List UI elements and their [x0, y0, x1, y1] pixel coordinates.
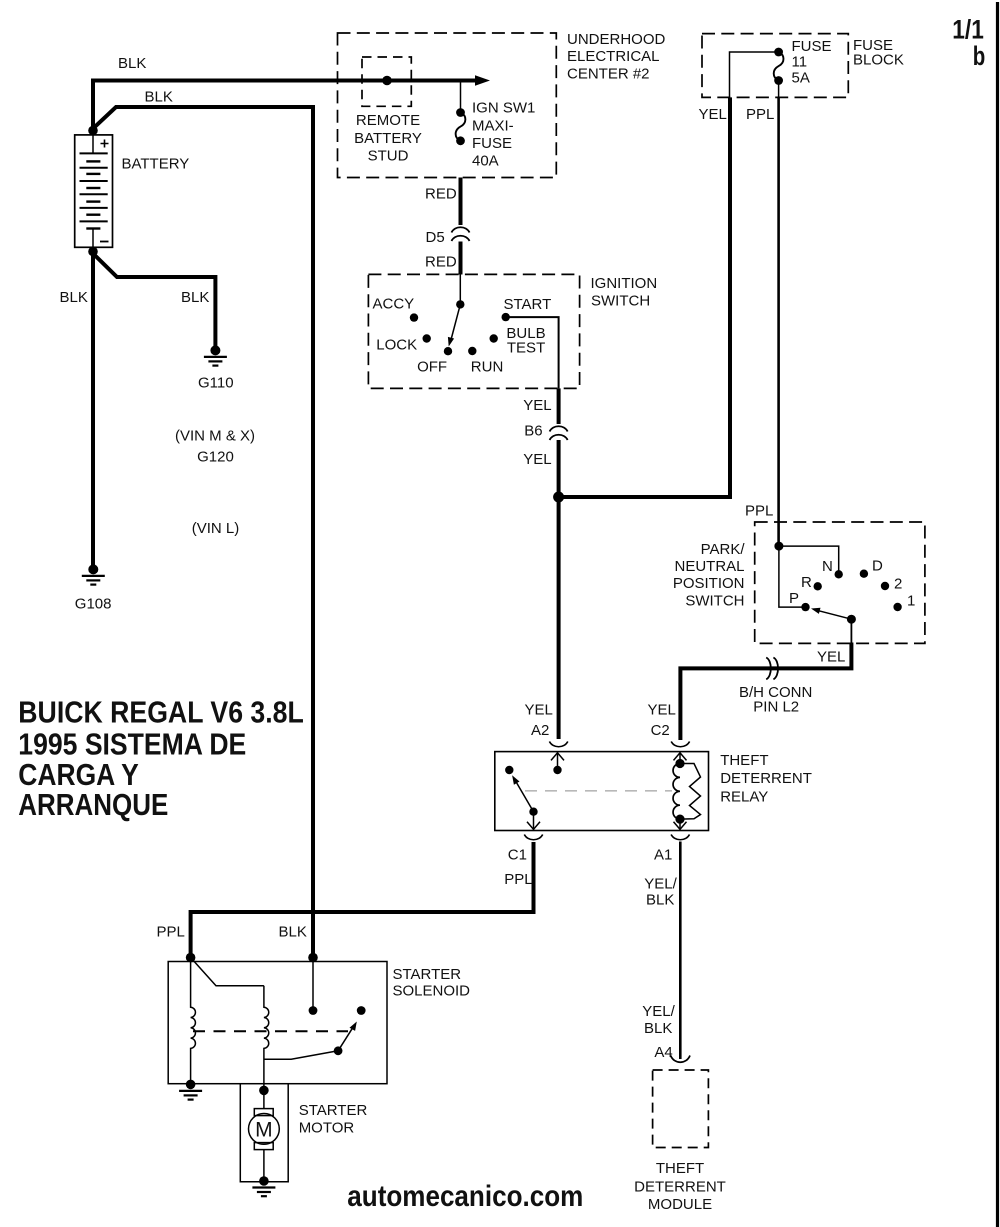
battery plates: [80, 135, 108, 247]
wire PPL fuse block to park/neutral switch: [777, 97, 780, 543]
svg-text:BLK: BLK: [279, 923, 307, 940]
wire START out: [506, 317, 559, 388]
wire PPL relay C1 to starter solenoid: [191, 842, 534, 954]
node battery positive: [88, 126, 98, 136]
remote battery stud box: [362, 57, 411, 106]
svg-text:40A: 40A: [472, 152, 499, 169]
node ppl entry: [774, 542, 783, 551]
svg-text:SWITCH: SWITCH: [591, 293, 650, 310]
svg-text:G120: G120: [197, 449, 234, 466]
underhood electrical center box: [338, 33, 557, 178]
svg-text:BLK: BLK: [646, 892, 674, 909]
UNDERHOOD-CENTER: [338, 31, 666, 178]
svg-text:YEL: YEL: [523, 397, 551, 414]
svg-text:(VIN M & X): (VIN M & X): [175, 428, 255, 445]
coil 1: [191, 958, 196, 1085]
svg-text:THEFT: THEFT: [656, 1160, 704, 1177]
wire RED maxifuse to D5: [459, 178, 463, 226]
node BLK entry: [308, 953, 318, 963]
svg-text:5A: 5A: [792, 69, 810, 86]
svg-text:BLK: BLK: [145, 89, 173, 106]
ground G108: [75, 564, 112, 612]
contact 1: [893, 603, 901, 611]
fuse 11 symbol: [774, 48, 783, 57]
svg-text:RELAY: RELAY: [720, 789, 768, 806]
svg-text:STUD: STUD: [368, 148, 409, 165]
wire to ground: [263, 1150, 265, 1181]
fuse block box: [702, 34, 848, 98]
battery minus sign: [100, 241, 109, 243]
contact D: [860, 570, 868, 578]
coil 2: [264, 986, 269, 1091]
connector arc C1: [524, 835, 542, 840]
internal dashed line: [525, 790, 672, 792]
wire stub to maxifuse: [460, 82, 462, 109]
wire to P contact: [779, 546, 802, 607]
wire YEL ignition start to B6: [557, 388, 561, 424]
contact BULB TEST: [490, 334, 498, 342]
relay box: [495, 752, 709, 831]
switch arm: [817, 610, 851, 619]
wire RED D5 to ignition switch: [459, 242, 463, 275]
A1 arrow down: [679, 819, 681, 829]
connector arc C2: [671, 742, 689, 747]
IGNITION-SWITCH: [368, 274, 657, 388]
svg-text:CENTER #2: CENTER #2: [567, 65, 650, 82]
wire to N contact: [779, 546, 839, 571]
THEFT-MODULE: [634, 1056, 726, 1213]
svg-text:ACCY: ACCY: [373, 295, 415, 312]
svg-text:G110: G110: [198, 375, 234, 392]
svg-text:DETERRENT: DETERRENT: [720, 770, 812, 787]
relay coil: [673, 764, 680, 820]
wire BLK battery- to G108: [91, 251, 95, 566]
svg-text:LOCK: LOCK: [376, 336, 417, 353]
svg-text:BLOCK: BLOCK: [853, 52, 904, 69]
svg-text:RED: RED: [425, 254, 457, 271]
arrowhead at remote stud wire end: [475, 75, 490, 85]
wire YEL/BLK relay A1 to theft deterrent module: [679, 842, 682, 1060]
svg-text:D: D: [872, 558, 883, 575]
WIRES-MEDIUM: [680, 97, 778, 1059]
ignition switch box: [368, 274, 579, 388]
connector B/H CONN PIN L2: [766, 658, 778, 680]
A2 arrow up: [557, 753, 559, 770]
node junction yel: [553, 492, 564, 503]
contact LOCK: [423, 334, 431, 342]
connector arc A1: [671, 835, 689, 840]
svg-text:BATTERY: BATTERY: [122, 156, 190, 173]
link pivot to motor node: [264, 1051, 338, 1060]
switch arm with arrow: [451, 304, 461, 340]
svg-text:MOTOR: MOTOR: [299, 1120, 355, 1137]
svg-text:M: M: [255, 1119, 273, 1142]
svg-text:YEL: YEL: [817, 649, 845, 666]
svg-text:A4: A4: [654, 1044, 672, 1061]
wire YEL B6 to junction to relay A2: [557, 440, 561, 739]
wire YEL junction to fuse block: [559, 97, 730, 497]
contact START: [502, 313, 510, 321]
svg-text:SWITCH: SWITCH: [685, 592, 744, 609]
svg-text:BATTERY: BATTERY: [354, 130, 422, 147]
ground motor: [259, 1176, 269, 1186]
wire into pivot: [459, 274, 461, 301]
node relay coil top: [675, 759, 684, 768]
svg-text:PPL: PPL: [157, 923, 185, 940]
svg-text:automecanico.com: automecanico.com: [347, 1180, 583, 1213]
svg-text:PARK/: PARK/: [701, 541, 746, 558]
switch arm with arrow: [516, 781, 534, 812]
svg-text:YEL: YEL: [523, 451, 551, 468]
svg-text:D5: D5: [426, 229, 445, 246]
svg-text:START: START: [504, 296, 552, 313]
PARK-NEUTRAL: [673, 503, 925, 644]
svg-text:YEL: YEL: [525, 702, 553, 719]
svg-text:N: N: [822, 558, 833, 575]
internal dashed line: [193, 1030, 348, 1032]
contact P: [801, 603, 809, 611]
svg-text:REMOTE: REMOTE: [356, 112, 420, 129]
svg-text:IGN SW1: IGN SW1: [472, 100, 535, 117]
contact 2: [881, 582, 889, 590]
svg-text:BUICK REGAL V6 3.8L: BUICK REGAL V6 3.8L: [18, 695, 304, 730]
motor circle M: [249, 1114, 280, 1145]
wire YEL park/neutral to relay C2: [680, 643, 851, 741]
THIN-LINKS: [461, 52, 779, 109]
STARTER-SOLENOID: [157, 923, 471, 1099]
svg-text:G108: G108: [75, 596, 112, 613]
wire BLK battery- diagonal to G110: [92, 253, 215, 348]
svg-text:YEL: YEL: [699, 106, 727, 123]
park/neutral box: [755, 522, 925, 643]
contact BLK: [309, 1006, 318, 1015]
svg-text:OFF: OFF: [417, 359, 447, 376]
svg-text:PPL: PPL: [504, 871, 532, 888]
svg-text:B6: B6: [524, 423, 542, 440]
svg-text:ARRANQUE: ARRANQUE: [18, 787, 168, 822]
switch arm with arrow: [338, 1027, 353, 1051]
svg-text:STARTER: STARTER: [299, 1102, 368, 1119]
battery box: [75, 135, 113, 247]
svg-text:PIN L2: PIN L2: [753, 699, 799, 716]
node relay coil bottom: [675, 815, 684, 824]
svg-text:C2: C2: [651, 722, 670, 739]
svg-text:A1: A1: [654, 847, 672, 864]
svg-text:POSITION: POSITION: [673, 575, 745, 592]
battery plus sign: [101, 140, 109, 148]
node motor connection: [259, 1086, 269, 1096]
svg-text:2: 2: [894, 575, 902, 592]
contact R: [814, 582, 822, 590]
contact ACCY: [410, 313, 418, 321]
svg-text:NEUTRAL: NEUTRAL: [674, 558, 744, 575]
svg-text:A2: A2: [531, 722, 549, 739]
contact OFF: [444, 347, 452, 355]
svg-text:C1: C1: [508, 847, 527, 864]
svg-text:MODULE: MODULE: [648, 1196, 712, 1213]
wire pivot down: [850, 619, 852, 643]
motor brush bottom: [254, 1143, 273, 1150]
connector arc A2: [549, 742, 567, 747]
TITLE: [18, 695, 304, 822]
relay resistor: [680, 764, 701, 820]
svg-text:(VIN L): (VIN L): [192, 520, 240, 537]
svg-text:THEFT: THEFT: [720, 752, 768, 769]
node pivot: [847, 615, 856, 624]
svg-text:PPL: PPL: [746, 106, 774, 123]
ground G110: [198, 345, 234, 391]
THEFT-RELAY: [495, 702, 812, 909]
maxifuse symbol: [456, 108, 465, 117]
BLK contact wire: [312, 958, 314, 1008]
svg-text:UNDERHOOD: UNDERHOOD: [567, 31, 666, 48]
node PPL entry: [186, 953, 196, 963]
C1 arrow down: [533, 812, 535, 830]
wire fuse block yel branch: [730, 52, 779, 97]
contact N: [835, 570, 843, 578]
svg-text:MAXI-: MAXI-: [472, 117, 514, 134]
svg-text:YEL/: YEL/: [644, 875, 677, 892]
svg-text:11: 11: [792, 54, 808, 71]
svg-text:STARTER: STARTER: [393, 966, 462, 983]
connector arc A4: [671, 1056, 690, 1063]
svg-text:BLK: BLK: [60, 289, 88, 306]
svg-text:P: P: [789, 590, 799, 607]
wire BLK battery+ to remote stud and arrow: [93, 81, 481, 133]
wire to motor: [263, 1090, 265, 1108]
module dashed box: [653, 1070, 709, 1148]
BATTERY: [75, 126, 190, 257]
motor enclosure: [240, 1084, 288, 1182]
contact right: [357, 1006, 366, 1015]
node battery negative: [88, 247, 98, 257]
svg-text:FUSE: FUSE: [792, 38, 832, 55]
STARTER-MOTOR: [240, 1084, 288, 1197]
svg-text:BLK: BLK: [644, 1020, 672, 1037]
motor brush top: [254, 1109, 273, 1116]
connector D5: [452, 227, 470, 241]
svg-text:b: b: [973, 41, 986, 71]
solenoid box: [168, 962, 387, 1084]
svg-text:ELECTRICAL: ELECTRICAL: [567, 48, 660, 65]
svg-text:YEL: YEL: [648, 702, 676, 719]
connector B6: [550, 426, 568, 440]
diagonal to coil 2: [191, 958, 264, 986]
page right border: [996, 2, 999, 1227]
C2 arrow up: [679, 753, 681, 764]
svg-text:IGNITION: IGNITION: [591, 275, 658, 292]
node remote battery stud: [382, 76, 392, 86]
ground inside solenoid: [186, 1080, 196, 1090]
switch fixed contact: [505, 766, 513, 774]
svg-text:1: 1: [907, 592, 915, 609]
svg-text:R: R: [801, 574, 812, 591]
svg-text:PPL: PPL: [745, 503, 773, 520]
wire fuse block ppl stub: [778, 83, 780, 97]
svg-text:BLK: BLK: [181, 289, 209, 306]
svg-text:DETERRENT: DETERRENT: [634, 1178, 726, 1195]
svg-text:YEL/: YEL/: [642, 1003, 675, 1020]
svg-text:SOLENOID: SOLENOID: [393, 983, 471, 1000]
FUSE-BLOCK: [699, 34, 904, 124]
svg-text:FUSE: FUSE: [472, 135, 512, 152]
node pivot: [456, 300, 464, 308]
svg-text:BLK: BLK: [118, 55, 146, 72]
WIRES-HEAVY: [92, 81, 851, 956]
contact RUN: [468, 347, 476, 355]
svg-text:RED: RED: [425, 186, 457, 203]
svg-text:RUN: RUN: [471, 359, 504, 376]
wire BLK battery+ diagonal to starter solenoid BLK: [92, 107, 313, 955]
svg-text:TEST: TEST: [507, 340, 545, 357]
